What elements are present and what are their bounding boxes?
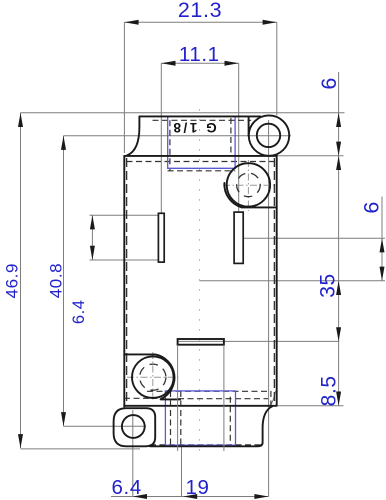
left port vertical centerline — [152, 352, 154, 402]
top port pocket corner arc — [224, 183, 242, 208]
svg-text:19: 19 — [185, 476, 209, 499]
arrow 19 right — [254, 494, 268, 499]
hidden top port right wall — [230, 118, 232, 156]
top port horizontal centerline — [223, 184, 277, 186]
dim line 46.9 — [20, 113, 22, 449]
boss side edges below step — [178, 345, 224, 451]
arrow 11.1 left — [161, 61, 175, 66]
arrow 21.3 left — [124, 20, 138, 25]
dim line 6.4 left — [91, 215, 93, 260]
blue highlight lines — [165, 117, 235, 446]
arrow 11.1 right — [225, 61, 239, 66]
hidden bottom cavity step — [178, 398, 268, 400]
ext step top y=341.4 — [178, 340, 340, 342]
highlighted G1/8 top port — [168, 117, 235, 169]
arrow 21.3 right — [263, 20, 277, 25]
ext 11.1 left — [160, 63, 162, 213]
arrow 40.8 top — [61, 136, 66, 150]
ext slot top left y=214.6 — [90, 214, 159, 216]
ext body top right y=155.8 — [277, 155, 344, 157]
hidden bottom cavity top — [147, 390, 271, 392]
ext 21.3 right — [276, 22, 278, 115]
ext boss left vertical — [181, 446, 183, 496]
hidden bottom port left wall b — [180, 391, 182, 445]
dim line 11.1 — [161, 62, 238, 64]
corner curve upper thin part — [270, 391, 275, 406]
tab outer circle — [249, 115, 289, 155]
dim line 6 right — [381, 197, 383, 282]
hidden bottom port right wall — [229, 397, 231, 445]
bottom boss right edge — [223, 345, 225, 451]
arrow 8.5 bottom — [336, 327, 341, 341]
boss top edge — [139, 115, 260, 117]
part bold outline — [114, 115, 290, 446]
left slot — [158, 213, 164, 262]
hidden top port thread circle — [237, 173, 261, 197]
hidden left port thread circle — [140, 364, 166, 390]
top port vertical centerline — [247, 160, 249, 211]
hidden port circles — [140, 173, 260, 390]
ext body bottom y=405.7 — [277, 405, 344, 407]
dim line bottom 6.4/19 — [111, 496, 269, 498]
arrow 6 right upper — [380, 238, 385, 252]
bottom boss left edge — [177, 345, 179, 451]
hidden corner edge — [270, 391, 272, 405]
svg-text:21.3: 21.3 — [178, 0, 222, 22]
dim line 40.8 — [63, 136, 65, 427]
arrow 6 right lower — [380, 267, 385, 281]
ext 21.3 left — [123, 22, 125, 153]
svg-text:6: 6 — [360, 201, 384, 214]
hidden bottom port left wall a — [170, 391, 172, 445]
arrow 35 top — [336, 156, 341, 170]
body right — [276, 156, 278, 406]
body top — [124, 155, 276, 157]
svg-text:6.4: 6.4 — [112, 476, 142, 499]
top port circle — [227, 163, 270, 206]
left pocket top — [124, 353, 155, 355]
heavy hidden bore walls — [127, 158, 275, 404]
top tab hole — [257, 124, 280, 147]
main vertical centerline — [199, 109, 201, 455]
hidden thread top edge — [153, 119, 252, 121]
hidden dashed lines — [124, 118, 275, 445]
arrow 40.8 bottom — [61, 412, 66, 426]
arrow 8.5 top — [336, 281, 341, 295]
bottom tab hole — [122, 415, 145, 438]
svg-text:6.4: 6.4 — [70, 299, 88, 324]
ext part bottom y=448.9 — [21, 448, 141, 450]
svg-text:G 1/8: G 1/8 — [171, 120, 217, 135]
ext hole-center top y=135.7 — [64, 135, 292, 137]
ext top overall y=112.8 — [21, 112, 345, 114]
ext mid feature y=280.8 — [199, 280, 385, 282]
svg-text:35: 35 — [317, 273, 340, 298]
body left — [123, 156, 125, 407]
arrow 6 top lower — [336, 142, 341, 156]
svg-text:11.1: 11.1 — [179, 43, 220, 66]
arrow 6 top upper — [336, 113, 341, 127]
arrow 19 left — [183, 494, 197, 499]
centerlines — [199, 109, 201, 455]
svg-text:8.5: 8.5 — [318, 375, 341, 406]
step rect — [178, 339, 224, 345]
arrow 46.9 bottom — [18, 434, 23, 448]
body bottom — [124, 405, 276, 407]
ext top hole center vertical — [268, 120, 270, 497]
left port circle — [132, 356, 174, 398]
ext bottom hole center vertical — [132, 410, 134, 497]
hidden right bore wall — [273, 158, 275, 404]
top port pocket bottom — [242, 206, 277, 208]
dim line 21.3 — [124, 21, 276, 23]
slots — [158, 212, 243, 263]
ext bottom hole center y=426.3 — [64, 425, 147, 427]
hidden bottom cavity bottom — [150, 444, 262, 446]
ext slot center right y=238.2 — [241, 237, 385, 239]
left port horizontal centerline — [127, 376, 180, 378]
arrow 6.4 left top — [90, 215, 95, 229]
arrow 46.9 top — [18, 113, 23, 127]
hidden pocket bottom behind lug — [124, 397, 157, 399]
svg-text:46.9: 46.9 — [3, 263, 22, 299]
dim line right stack 6/35/8.5 — [338, 72, 340, 406]
hidden body top inner edge — [127, 161, 275, 163]
arrow 6.4 left bottom — [90, 246, 95, 260]
hidden top port left wall — [169, 120, 171, 171]
ext slot bottom left y=260.3 — [90, 259, 159, 261]
boss left edge + fillet — [127, 116, 139, 155]
boss right edge — [248, 117, 250, 136]
hidden top port bottom — [168, 170, 236, 172]
bottom right curve — [150, 406, 273, 446]
left pocket corner arc — [155, 354, 174, 399]
bottom tab lug — [114, 408, 156, 446]
hidden left bore wall — [126, 158, 128, 404]
svg-text:40.8: 40.8 — [47, 263, 66, 299]
arrow 35 bottom — [336, 392, 341, 406]
right slot — [234, 212, 243, 263]
ext 11.1 right — [238, 63, 240, 212]
arrow 6.4 bottom — [133, 494, 147, 499]
svg-text:6: 6 — [317, 77, 341, 90]
highlighted G1/8 bottom port — [165, 391, 235, 445]
left pocket bottom — [161, 398, 180, 400]
